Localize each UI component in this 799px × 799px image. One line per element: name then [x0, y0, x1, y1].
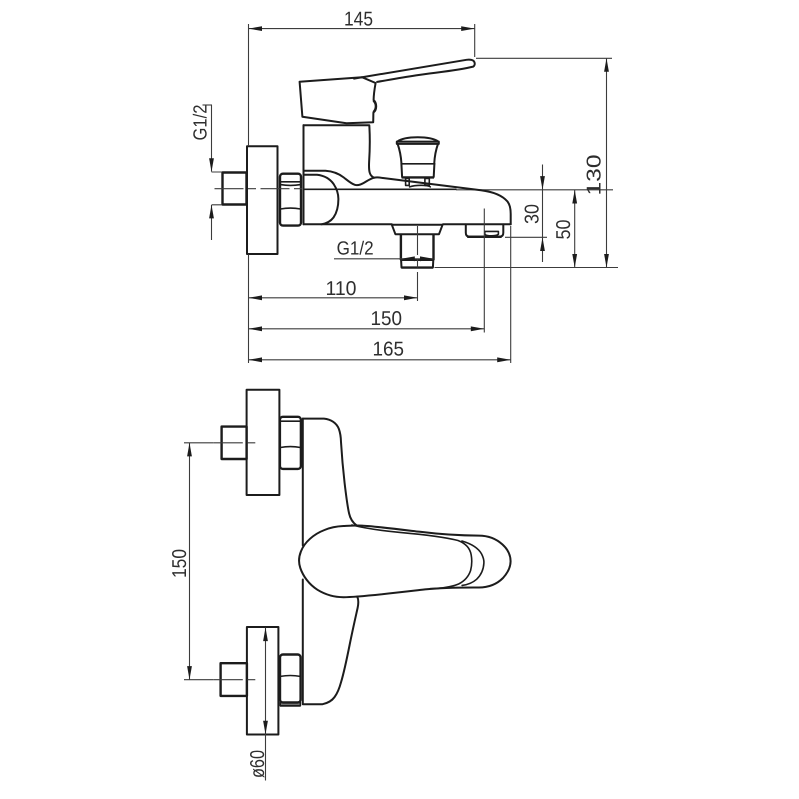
shower hose check valve outlet (under spout) — [466, 224, 504, 236]
nipple vertical centerline — [417, 226, 419, 302]
faucet body outline (side view) — [304, 171, 511, 225]
extension line through check valve to 150 dim — [483, 209, 485, 333]
diverter knob stems — [406, 178, 410, 185]
G1/2 bottom outlet label — [334, 239, 434, 262]
horizontal centerline of pipe axis — [215, 188, 304, 190]
shared extension line y=267.5 for 50 and 130 dims — [435, 267, 619, 269]
dimension 150 (side view) — [249, 308, 485, 331]
handle lever end middle arc (front) — [462, 541, 484, 585]
cartridge collar (side view) — [304, 125, 375, 178]
upper hex nut (front) — [280, 417, 301, 469]
dimension 165 — [249, 255, 511, 364]
body column left edge below handle — [302, 580, 304, 704]
body bottom edge right segment — [443, 223, 511, 225]
dimension 110 — [249, 278, 418, 300]
svg-text:50: 50 — [553, 220, 575, 240]
lower pipe centerline — [214, 679, 259, 681]
bottom outlet nipple end cap — [401, 260, 434, 267]
body column top cap and right ogee (front) — [303, 419, 357, 526]
upper wall pipe nipple (front) — [222, 427, 247, 459]
body bottom edge left segment — [304, 223, 392, 225]
body spout ogee below handle (front) — [303, 597, 359, 705]
svg-text:110: 110 — [326, 278, 357, 300]
hex connection nut (side view) — [280, 174, 301, 226]
body column left edge above handle — [302, 419, 304, 546]
diverter knob dome — [397, 137, 438, 141]
svg-text:145: 145 — [344, 8, 373, 30]
svg-text:G1/2: G1/2 — [191, 105, 212, 141]
wall pipe nipple (side view) — [223, 173, 247, 205]
diverter knob waist sides — [398, 144, 438, 164]
bottom outlet nipple tube — [401, 234, 434, 260]
extension line for 30 dim bottom — [505, 236, 547, 238]
G1/2 wall pipe dimension — [191, 105, 223, 241]
extension line from body top right to 50/130 dims — [456, 189, 613, 191]
upper pipe centerline — [214, 442, 259, 444]
internal boss fillet curve — [304, 175, 339, 225]
diverter knob mid joint — [401, 163, 434, 165]
dimension ø60 — [247, 628, 269, 781]
handle lever arm (side view) — [354, 60, 475, 82]
lower hex nut (front) — [280, 655, 301, 706]
svg-text:150: 150 — [371, 308, 403, 330]
svg-text:30: 30 — [522, 204, 544, 224]
svg-text:165: 165 — [373, 338, 405, 360]
diverter knob band — [397, 142, 439, 144]
handle base (side view) — [300, 77, 377, 123]
dimension 150 (front view) — [169, 443, 214, 680]
svg-text:ø60: ø60 — [247, 750, 269, 778]
lower escutcheon flange (front) — [247, 627, 279, 735]
check valve inner ring — [485, 231, 499, 235]
svg-text:130: 130 — [583, 155, 605, 196]
upper escutcheon flange (front) — [247, 390, 280, 495]
bottom outlet nipple flange — [392, 225, 443, 235]
dimension 130 — [476, 58, 612, 267]
extension line from spout end to 165 dim — [510, 226, 512, 363]
diverter stem foot washer — [410, 185, 431, 187]
handle lever seam and inner cap (front) — [352, 525, 472, 589]
dimension 30 — [522, 165, 545, 263]
handle colour button — [374, 101, 376, 111]
diverter knob lower cylinder — [401, 164, 434, 177]
lower wall pipe nipple (front) — [221, 663, 247, 696]
dimension 145 — [249, 8, 475, 146]
svg-text:G1/2: G1/2 — [337, 239, 374, 260]
body left edge at wall — [303, 125, 305, 224]
handle outer silhouette (front) — [299, 526, 510, 598]
dimension 50 — [553, 190, 577, 268]
wall escutcheon flange (side view) — [247, 146, 278, 254]
svg-text:150: 150 — [169, 549, 191, 578]
